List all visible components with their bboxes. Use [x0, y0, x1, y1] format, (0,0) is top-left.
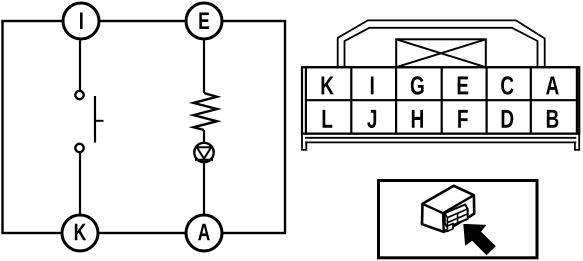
grid column line 2 — [395, 67, 397, 133]
terminal I — [63, 3, 99, 39]
wire resistor to lamp — [203, 130, 205, 143]
relay unit icon U1 — [422, 186, 474, 232]
switch contact bottom — [75, 144, 83, 152]
terminal K — [62, 215, 98, 251]
switch lever SW1 — [95, 96, 104, 143]
grid row divider — [306, 99, 577, 101]
connector bottom flange — [302, 134, 579, 150]
grid column line 3 — [441, 67, 443, 133]
pin I — [371, 77, 374, 95]
pin E — [458, 77, 469, 95]
wire lamp to A — [203, 163, 205, 214]
pin G — [411, 76, 424, 94]
pin C — [501, 76, 513, 94]
pin B — [547, 110, 559, 128]
wire I to switch — [79, 41, 81, 91]
pin L — [323, 110, 333, 128]
pin D — [502, 110, 514, 128]
lamp LED — [194, 143, 213, 162]
pin K — [322, 77, 334, 95]
grid column line 4 — [486, 67, 488, 133]
grid column line 5 — [530, 67, 532, 133]
relay connector socket — [445, 205, 468, 232]
wire switch to K — [79, 153, 81, 214]
pin A — [546, 77, 559, 95]
wire: left circuit outer loop box — [3, 21, 286, 233]
pin F — [458, 110, 468, 128]
pin H — [412, 110, 423, 128]
grid column line 1 — [350, 67, 352, 133]
switch contact top — [75, 91, 83, 99]
terminal E — [186, 3, 222, 39]
arrow pointer — [463, 224, 496, 255]
terminal A — [186, 215, 222, 251]
connector lock bail — [338, 20, 545, 66]
connector keyway (crossed box) — [396, 39, 486, 67]
resistor R — [194, 93, 218, 130]
wire E to resistor — [203, 41, 205, 94]
inset box frame — [379, 181, 538, 258]
connector body — [302, 67, 579, 133]
pin J — [367, 110, 376, 128]
pin grid outline — [306, 67, 577, 133]
